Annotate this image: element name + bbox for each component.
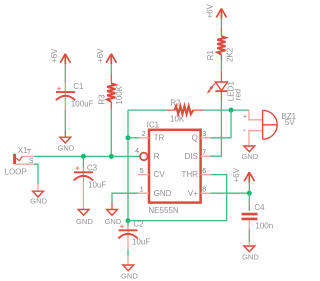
svg-text:Q: Q: [192, 133, 198, 142]
wire loop net (T to reset pin): [34, 155, 140, 157]
wire pin 1 to ground: [112, 193, 138, 202]
svg-text:R: R: [154, 152, 160, 161]
capacitor C1 100uF: [56, 82, 94, 110]
svg-text:100uF: 100uF: [71, 100, 94, 109]
svg-text:+: +: [243, 114, 247, 121]
svg-text:8: 8: [202, 187, 206, 194]
svg-text:GND: GND: [30, 197, 47, 206]
buzzer BZ1 5V: [243, 110, 297, 146]
svg-text:GND: GND: [242, 253, 259, 262]
pin 6 THR: [181, 168, 211, 179]
svg-text:5V: 5V: [285, 118, 295, 127]
resistor R1 2K2: [206, 28, 234, 62]
pin 7 DIS: [185, 150, 212, 161]
stub C3 to ground: [82, 182, 84, 209]
resistor R3 100K: [97, 75, 124, 110]
junction V+ node: [247, 191, 252, 196]
wire Q to feedback corner: [211, 110, 231, 138]
svg-text:3: 3: [202, 131, 206, 138]
pin 8 V+: [188, 187, 212, 198]
wire R1 to LED1: [220, 62, 222, 72]
pin 1 GND: [138, 187, 171, 198]
wire to pin TR: [128, 137, 140, 139]
stub C4 to ground: [248, 220, 250, 230]
wire R2 net vertical (TR/THR node): [127, 110, 129, 221]
svg-text:10K: 10K: [170, 115, 185, 124]
svg-text:1: 1: [140, 187, 144, 194]
svg-text:6: 6: [202, 168, 206, 175]
svg-text:CV: CV: [154, 170, 166, 179]
LED1 red: [206, 71, 243, 101]
svg-text:DIS: DIS: [185, 152, 198, 161]
svg-text:GND: GND: [154, 189, 172, 198]
wire THR to timing node: [128, 175, 227, 221]
svg-text:GND: GND: [121, 272, 138, 281]
svg-text:R3: R3: [97, 94, 106, 105]
wire R3 to loop net: [110, 109, 112, 156]
svg-text:THR: THR: [181, 170, 198, 179]
svg-text:C4: C4: [254, 203, 265, 212]
wire +6V to R3: [110, 64, 112, 74]
supply +6V symbol (C1 branch): [50, 48, 70, 64]
pin S stub: [16, 163, 34, 165]
capacitor C2 10uF: [118, 219, 150, 246]
svg-text:4: 4: [135, 148, 139, 155]
svg-text:C3: C3: [87, 163, 98, 172]
svg-text:GND: GND: [57, 144, 74, 153]
junction C3 tap: [81, 154, 86, 159]
svg-text:+6V: +6V: [205, 3, 214, 18]
supply +6V symbol (R3 branch): [96, 48, 116, 64]
svg-text:R1: R1: [206, 50, 215, 61]
junction R3 tap: [109, 154, 114, 159]
connector X1 LOOP jack: [5, 146, 34, 177]
pin 2 TR: [139, 131, 164, 142]
ground (X1 S): [30, 191, 47, 205]
wire C1 to ground: [64, 110, 66, 130]
ground (BZ1): [241, 146, 258, 161]
wire +6V to V+ node: [248, 183, 250, 194]
svg-text:red: red: [233, 89, 242, 101]
junction pin 2 tap: [126, 135, 131, 140]
svg-text:100n: 100n: [255, 222, 273, 231]
svg-text:TR: TR: [154, 133, 165, 142]
ground (C3): [76, 210, 93, 226]
junction Q feedback tap: [229, 108, 234, 113]
junction C2 tap: [126, 218, 131, 223]
wire +6V to R1: [220, 19, 222, 28]
IC1 NE555N body: [147, 121, 201, 215]
svg-text:V+: V+: [188, 189, 198, 198]
ground (C1): [57, 137, 74, 152]
svg-text:R2: R2: [170, 99, 181, 108]
wire +6V to C1: [64, 64, 66, 83]
svg-text:GND: GND: [241, 152, 258, 161]
wire S to ground: [34, 164, 38, 184]
svg-text:IC1: IC1: [147, 121, 160, 130]
svg-text:2: 2: [142, 131, 146, 138]
wire pin 8 to V+ node: [211, 192, 250, 194]
supply +6V symbol (R1 branch): [205, 3, 226, 19]
svg-text:2K2: 2K2: [225, 47, 234, 62]
svg-text:NE555N: NE555N: [148, 206, 178, 215]
pin T stub: [22, 155, 34, 157]
wire R2 to output net: [204, 109, 249, 111]
wire LED1 to DIS: [220, 91, 222, 100]
wire V+ node to C4: [248, 193, 250, 211]
pin 3 Q: [192, 131, 212, 142]
pin 5 CV: [138, 168, 165, 179]
svg-text:100K: 100K: [115, 85, 124, 104]
svg-text:7: 7: [202, 150, 206, 157]
svg-text:+6V: +6V: [50, 48, 59, 63]
svg-text:10uF: 10uF: [88, 181, 106, 190]
svg-text:LOOP: LOOP: [5, 168, 27, 177]
stub C2 to ground: [127, 239, 129, 250]
svg-text:GND: GND: [104, 217, 121, 226]
wire loop net to C3: [82, 156, 84, 168]
svg-text:C1: C1: [73, 82, 84, 91]
svg-text:10uF: 10uF: [132, 237, 150, 246]
resistor R2 10K: [166, 99, 203, 124]
svg-text:+6V: +6V: [232, 167, 241, 182]
svg-text:T: T: [27, 149, 32, 156]
ground (IC1 GND): [104, 210, 121, 226]
svg-text:C2: C2: [133, 219, 144, 228]
ground (C4): [242, 246, 259, 262]
capacitor C3 10uF: [74, 163, 107, 189]
svg-text:GND: GND: [76, 217, 93, 226]
svg-text:5: 5: [140, 168, 144, 175]
svg-text:+6V: +6V: [96, 48, 105, 63]
supply +6V symbol (V+ branch): [232, 167, 254, 182]
capacitor C4 100n: [242, 203, 274, 231]
wire R2 net horizontal to R2: [128, 109, 166, 111]
ground (C2): [121, 265, 138, 281]
pin 4 R inverted bubble: [135, 148, 160, 161]
wire C2 top: [127, 221, 129, 226]
